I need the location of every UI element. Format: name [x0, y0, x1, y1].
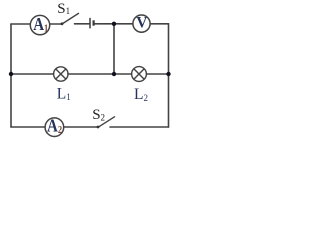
lamp L2: [132, 67, 147, 82]
node A junction dot (middle-left): [9, 72, 13, 76]
wire left vertical: [10, 24, 12, 127]
wire top-left to ammeter A1: [11, 23, 30, 25]
ammeter A1 circle: [30, 15, 49, 34]
wire right vertical: [168, 24, 170, 127]
wire A2 to switch S2 pivot: [64, 126, 98, 128]
wire battery to node B: [94, 23, 114, 25]
svg-text:V: V: [136, 15, 148, 32]
wire middle vertical node B to node C: [113, 24, 115, 74]
switch S1 lever: [62, 13, 79, 24]
wire A1 to switch S1 pivot: [50, 23, 62, 25]
wire bottom-left to ammeter A2: [11, 126, 45, 128]
wire L2 to node D: [147, 73, 169, 75]
lamp L1: [54, 67, 68, 81]
switch S1 pivot dot: [61, 22, 64, 25]
node C junction dot (middle-center): [112, 72, 116, 76]
node D junction dot (middle-right): [166, 72, 170, 76]
switch S2 pivot dot: [97, 126, 100, 129]
wire middle-left node A to lamp L1: [11, 73, 54, 75]
battery short plate: [92, 20, 94, 25]
node B junction dot (top): [112, 22, 116, 26]
switch S2 lever: [98, 117, 115, 128]
ammeter A2 circle: [45, 118, 64, 137]
battery long plate: [89, 18, 91, 29]
wire L1 to node C: [68, 73, 132, 75]
wire S2 to bottom-right corner: [110, 126, 169, 128]
voltmeter V circle: [133, 15, 150, 32]
wire voltmeter to top-right corner: [150, 23, 168, 25]
wire S1 to battery: [75, 23, 90, 25]
wire node B to voltmeter: [114, 23, 133, 25]
